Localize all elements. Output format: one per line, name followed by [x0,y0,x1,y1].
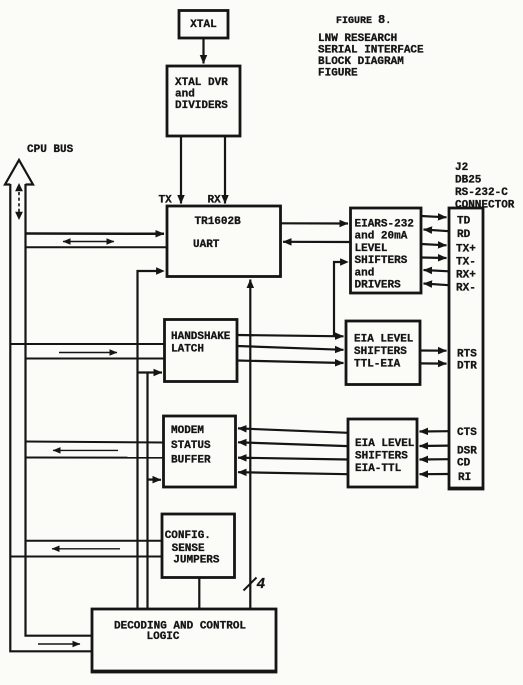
wire control arrow into modem buffer [148,478,162,480]
wire UART to EIARS [281,222,349,224]
svg-text:DIVIDERS: DIVIDERS [175,100,228,112]
svg-text:CONNECTOR: CONNECTOR [455,200,515,212]
wire RTS [420,349,447,351]
svg-text:4: 4 [257,577,266,593]
svg-text:LEVEL: LEVEL [355,243,388,255]
thin arrow latch row [59,352,117,354]
wire TX- [421,256,447,259]
svg-text:EIA LEVEL: EIA LEVEL [354,334,414,346]
wire EIA-TTL to modem buffer 1 [238,428,348,432]
wire latch to TTL-EIA 2 [237,346,344,350]
wire CD [420,458,450,460]
wire UART rail lower [26,246,168,248]
wire EIA-TTL to modem buffer 2 [238,442,348,446]
svg-text:SHIFTERS: SHIFTERS [355,255,408,267]
wire modem rail lower [26,457,164,459]
box DECODING AND CONTROL LOGIC [91,609,277,672]
wire CTS [420,430,450,432]
svg-text:RI: RI [458,472,471,484]
svg-text:TD: TD [457,216,471,228]
svg-text:and: and [355,267,375,279]
svg-text:RX+: RX+ [456,270,476,282]
wire RX+ [424,270,450,271]
wire DTR [420,362,447,364]
label TX- [456,256,476,268]
wire bus line 2 (right vertical, down to decoding upper rail) [26,184,93,636]
label TD [457,216,471,228]
svg-text:STATUS: STATUS [171,440,211,452]
thin double arrow UART row [63,241,114,243]
svg-text:DB25: DB25 [455,175,482,187]
svg-text:EIARS-232: EIARS-232 [355,219,414,231]
wire control arrow into latch [138,371,163,373]
box XTAL [179,11,228,39]
svg-text:J2: J2 [455,162,468,174]
thin arrow modem row [53,449,118,451]
svg-text:XTAL DVR: XTAL DVR [175,77,228,89]
svg-text:JUMPERS: JUMPERS [173,555,220,567]
svg-text:CD: CD [457,457,471,469]
svg-text:TX-: TX- [456,256,476,268]
label CPU BUS [27,144,74,156]
svg-text:and: and [175,89,195,101]
thin arrow decoding row [38,643,80,645]
svg-text:SERIAL INTERFACE: SERIAL INTERFACE [318,45,424,57]
wire TX+ [421,244,447,245]
svg-text:DECODING AND CONTROL: DECODING AND CONTROL [114,621,246,633]
wire modem rail upper [26,442,164,443]
label RX- [456,283,476,295]
wire latch to TTL-EIA 1 [237,335,344,336]
svg-text:EIA LEVEL: EIA LEVEL [355,438,415,450]
wire latch branch to EIARS [334,258,349,336]
svg-text:CPU BUS: CPU BUS [27,144,74,156]
svg-text:CTS: CTS [457,427,477,439]
CPU bus inner double arrow (dashed) [15,183,23,220]
svg-text:FIGURE 8.: FIGURE 8. [336,13,391,27]
wire RX clock [224,136,226,204]
label RTS [457,348,477,360]
wire latch rail lower [26,358,165,360]
svg-text:HANDSHAKE: HANDSHAKE [171,331,231,343]
box EIA LEVEL SHIFTERS TTL-EIA [346,321,420,385]
wire TX clock [180,136,182,204]
svg-text:TX+: TX+ [456,243,476,255]
svg-text:BLOCK DIAGRAM: BLOCK DIAGRAM [318,56,404,68]
wire RI [420,473,450,475]
svg-text:CONFIG.: CONFIG. [165,530,211,542]
box HANDSHAKE LATCH [165,320,238,382]
label DTR [457,360,477,372]
wire EIA-TTL to modem buffer 4 [238,472,348,474]
wire DSR [420,445,450,448]
label TX [159,195,173,207]
box CONFIG SENSE JUMPERS [162,514,235,578]
wire XTAL to XTAL DVR [202,38,204,64]
box XTAL DVR and DIVIDERS [167,66,240,136]
wire config to decoding [198,578,200,610]
svg-text:LNW RESEARCH: LNW RESEARCH [318,33,397,45]
title FIGURE 8. [336,13,391,27]
svg-text:XTAL: XTAL [190,19,217,31]
wire EIA-TTL to modem buffer 3 [238,458,348,460]
svg-text:BUFFER: BUFFER [171,455,211,467]
wire bus line 1 (left vertical, down to decoding lower rail) [10,184,92,651]
wire latch to TTL-EIA 3 [237,361,344,364]
wire UART rail upper [26,232,165,235]
label RX [208,195,222,207]
label RI [458,472,471,484]
wire control vertical C (4-bit bus to UART) [249,280,251,610]
svg-text:DSR: DSR [457,446,477,458]
svg-text:DRIVERS: DRIVERS [355,280,402,292]
label J2 DB25 RS-232-C CONNECTOR [455,162,515,212]
svg-text:SHIFTERS: SHIFTERS [355,451,408,463]
svg-text:LATCH: LATCH [171,344,204,356]
svg-text:TR1602B: TR1602B [195,216,242,228]
wire RX- [424,284,450,286]
svg-text:RS-232-C: RS-232-C [455,187,508,199]
wire TD [421,216,447,217]
svg-text:RD: RD [457,229,471,241]
svg-text:SHIFTERS: SHIFTERS [354,346,407,358]
svg-text:and 20mA: and 20mA [355,231,408,243]
svg-text:EIA-TTL: EIA-TTL [355,463,402,475]
bus width label 4 [257,577,266,593]
wire RD [424,230,450,232]
CPU bus arrow outline [5,160,33,185]
wire config rail lower [10,556,162,558]
label RD [457,229,471,241]
wire EIARS to UART [283,241,351,243]
svg-text:RX-: RX- [456,283,476,295]
label DSR [457,446,477,458]
wire control vertical B [146,373,148,610]
box EIARS-232 level shifters and drivers [351,208,422,293]
svg-text:RTS: RTS [457,348,477,360]
svg-text:MODEM: MODEM [171,425,204,437]
svg-text:LOGIC: LOGIC [147,631,180,643]
svg-text:FIGURE: FIGURE [318,68,358,80]
svg-text:UART: UART [193,239,220,251]
box EIA LEVEL SHIFTERS EIA-TTL [348,419,417,487]
label TX+ [456,243,476,255]
thin arrow config row [52,548,120,550]
box J2 DB25 connector [448,208,484,489]
wire control vertical A [138,267,165,609]
wire latch rail upper [10,343,164,345]
caption LNW RESEARCH block [318,33,424,80]
bus width slash [244,578,257,591]
box MODEM STATUS BUFFER [164,416,236,487]
box UART TR1602B [167,206,281,277]
svg-text:DTR: DTR [457,360,477,372]
svg-text:TTL-EIA: TTL-EIA [354,359,401,371]
label CD [457,457,471,469]
wire config rail upper [26,540,163,542]
label RX+ [456,270,476,282]
label CTS [457,427,477,439]
svg-text:SENSE: SENSE [172,543,205,555]
